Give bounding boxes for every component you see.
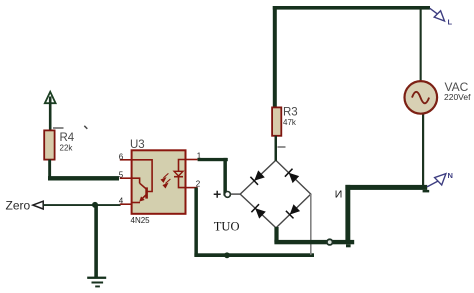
svg-text:22k: 22k bbox=[60, 144, 74, 153]
svg-text:220Vef: 220Vef bbox=[444, 92, 471, 102]
svg-text:TUO: TUO bbox=[214, 220, 240, 234]
svg-text:И: И bbox=[335, 188, 343, 200]
svg-text:4N25: 4N25 bbox=[131, 216, 151, 225]
svg-text:6: 6 bbox=[119, 152, 124, 161]
svg-text:Zero: Zero bbox=[6, 199, 31, 213]
svg-text:2: 2 bbox=[196, 180, 201, 189]
svg-text:U3: U3 bbox=[130, 139, 145, 151]
svg-text:R3: R3 bbox=[283, 107, 298, 119]
svg-text:47k: 47k bbox=[283, 118, 297, 127]
svg-text:L: L bbox=[448, 18, 453, 27]
svg-text:R4: R4 bbox=[60, 132, 75, 144]
svg-text:5: 5 bbox=[119, 171, 124, 180]
svg-text:4: 4 bbox=[119, 196, 124, 205]
svg-text:N: N bbox=[448, 171, 453, 180]
